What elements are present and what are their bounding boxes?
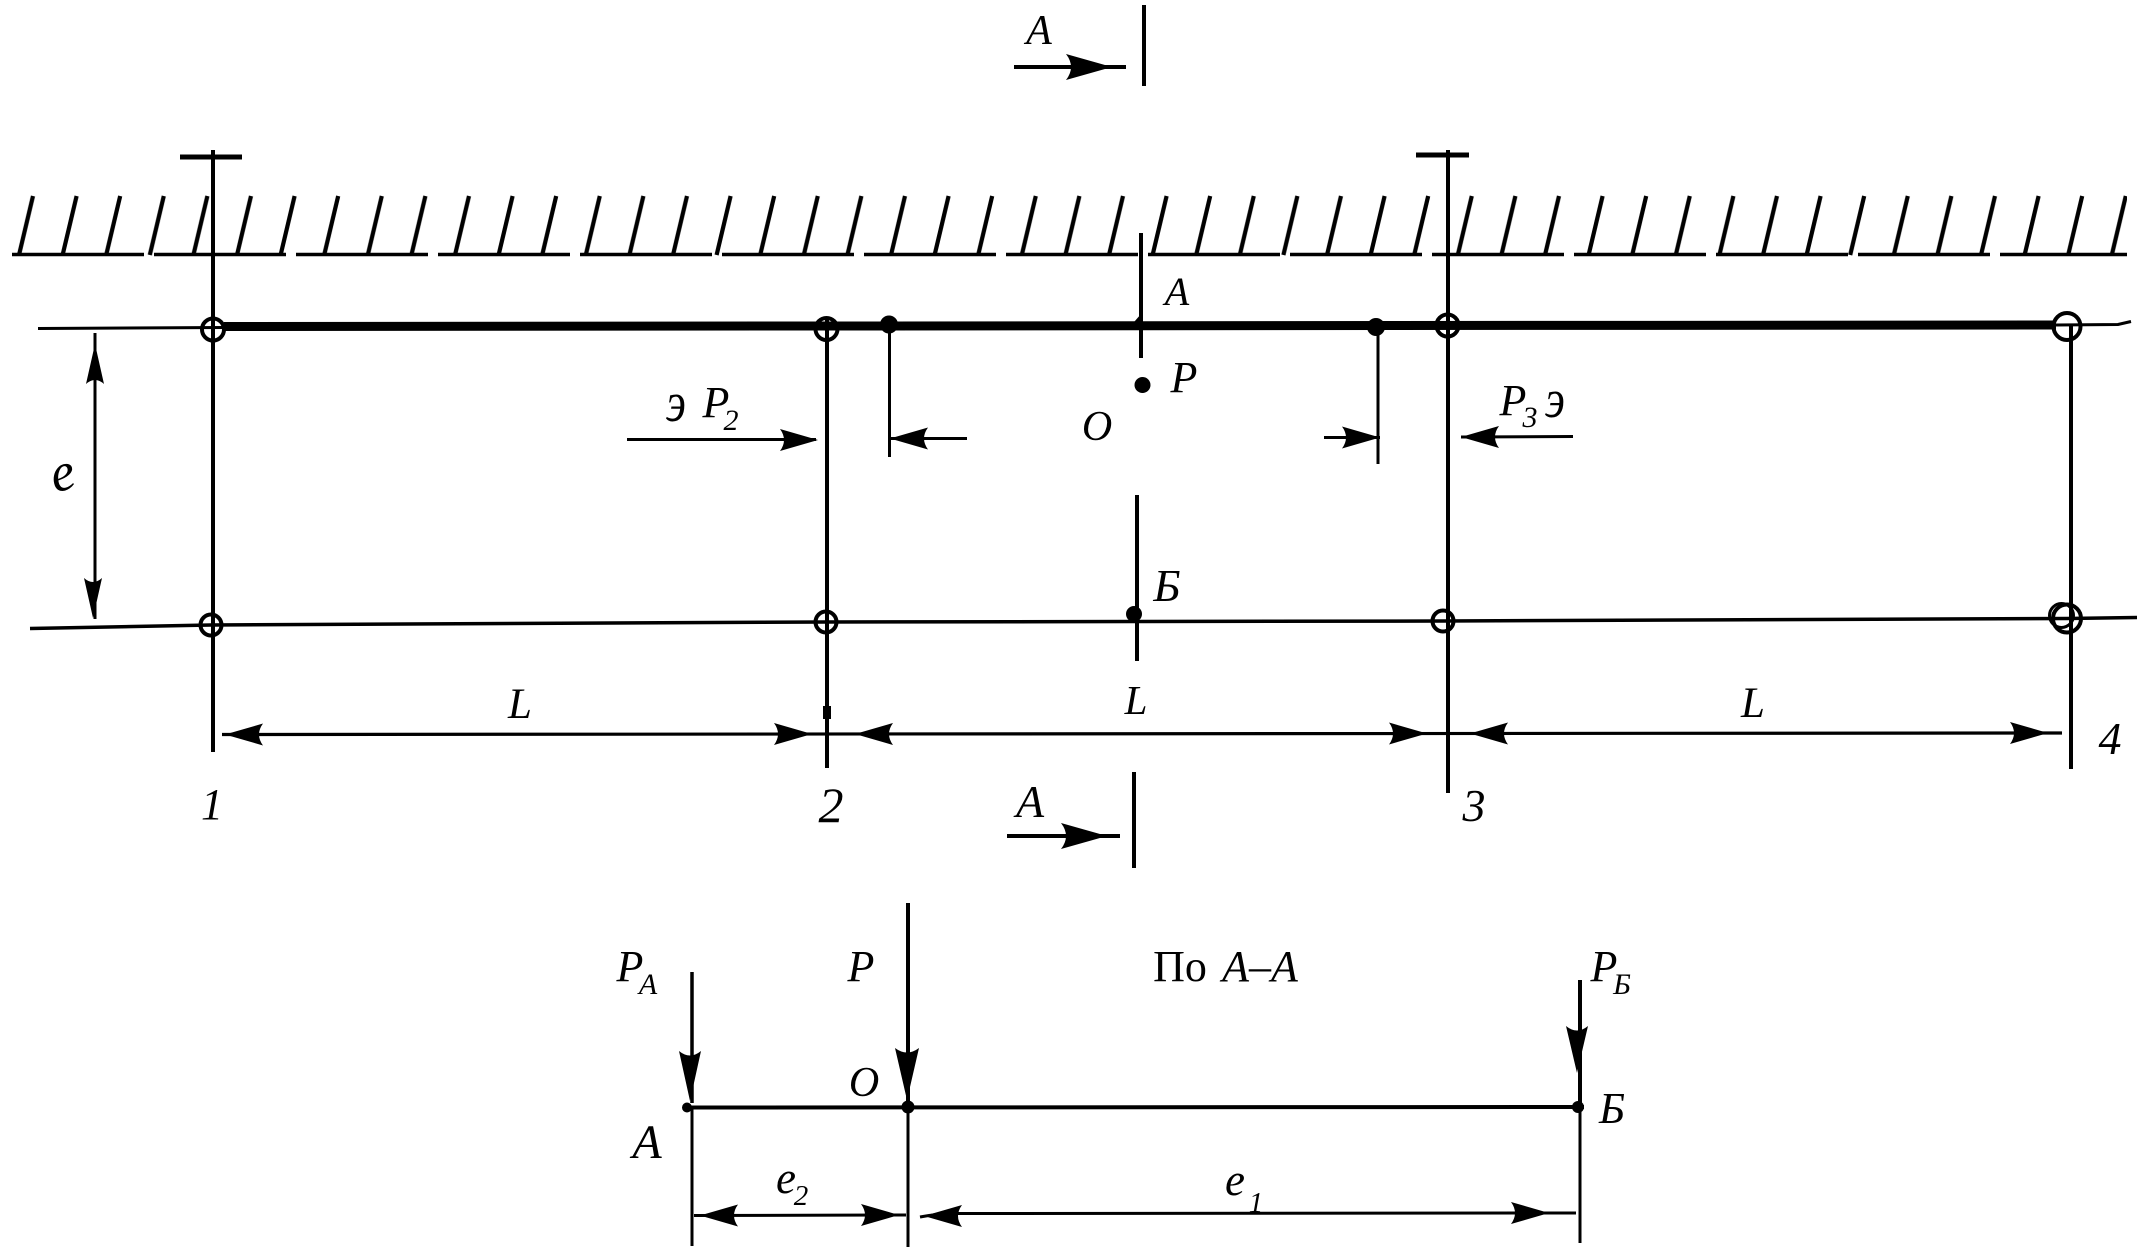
L span3 left arrowhead	[1470, 723, 1508, 745]
extension line at O	[907, 1107, 910, 1247]
beam point O dot	[902, 1101, 915, 1114]
support 3 column line	[1446, 150, 1450, 793]
dimension line L (spans 1-4)	[222, 733, 2062, 735]
L span2 left arrowhead	[855, 723, 893, 745]
svg-text:L: L	[1740, 680, 1765, 727]
dimension e2: line	[694, 1214, 906, 1218]
L span1 right arrowhead	[774, 723, 812, 745]
label PA	[616, 942, 658, 1001]
svg-text:3: 3	[1522, 401, 1538, 434]
dimension e1: line	[920, 1213, 1576, 1217]
dimension e2: left arrowhead	[700, 1205, 738, 1227]
section axis A lower segment	[1135, 495, 1139, 661]
node B dot	[1126, 606, 1142, 622]
svg-text:Б: Б	[1152, 560, 1180, 611]
hinge circle support 2 bottom	[816, 612, 837, 633]
svg-text:Р: Р	[847, 942, 875, 991]
svg-text:э: э	[666, 372, 686, 434]
force PB line	[1578, 980, 1582, 1103]
beam end dot A	[682, 1103, 692, 1113]
svg-text:3: 3	[1462, 780, 1486, 831]
dimension e (left): line	[94, 333, 97, 619]
L span3 right arrowhead	[2010, 722, 2048, 744]
svg-text:2: 2	[819, 777, 844, 833]
dimension P3 э: label	[1499, 369, 1565, 434]
extension line at A	[691, 1107, 694, 1246]
beam end dot B	[1572, 1101, 1584, 1113]
svg-text:А: А	[637, 968, 658, 1001]
dimension e1: label	[1225, 1155, 1263, 1219]
section mark A (top): cut line	[1142, 5, 1146, 86]
hinge circle support 4 top	[2054, 313, 2081, 340]
dimension э P2: left arrow	[627, 429, 818, 451]
dimension e2: label	[776, 1153, 808, 1212]
wheel load point P2: axis line	[888, 330, 891, 457]
force PA arrowhead	[679, 1051, 701, 1101]
point P dot	[1135, 377, 1151, 393]
support 2 column tick	[823, 706, 831, 719]
svg-text:Б: Б	[1598, 1084, 1625, 1133]
svg-text:О: О	[849, 1060, 879, 1106]
section mark A (top): label	[1023, 8, 1052, 54]
top rail thick segment	[224, 325, 2056, 327]
beam A-B	[686, 1105, 1584, 1110]
wall hatching	[12, 194, 2127, 256]
support 2 column line	[825, 318, 829, 768]
svg-text:А–А: А–А	[1219, 942, 1299, 991]
svg-text:Р: Р	[1170, 353, 1198, 402]
dimension e1: left arrowhead	[924, 1205, 962, 1227]
hinge circle support 4 bottom (doubled)	[2050, 604, 2082, 633]
svg-text:О: О	[1082, 404, 1112, 450]
dimension P3 э: right arrow	[1461, 426, 1573, 448]
svg-text:1: 1	[1249, 1187, 1264, 1219]
hinge circle support 1 bottom	[201, 615, 222, 636]
svg-text:А: А	[1023, 8, 1052, 54]
top rail left thin segment	[38, 328, 224, 329]
svg-text:А: А	[1013, 776, 1045, 827]
support 4 column line	[2069, 326, 2073, 769]
force P arrowhead	[895, 1048, 919, 1100]
L span1 left arrowhead	[225, 724, 263, 746]
support 1 hanger T	[180, 155, 242, 160]
label PB	[1590, 942, 1632, 1001]
hinge circle support 3 top	[1437, 315, 1459, 337]
svg-text:2: 2	[724, 404, 739, 437]
label Po A-A	[1153, 942, 1299, 991]
wheel load point P3: axis line	[1377, 334, 1380, 464]
hinge circle support 3 bottom	[1433, 611, 1454, 632]
wheel load point P2: dot on rail	[880, 316, 898, 334]
svg-text:По: По	[1153, 942, 1207, 991]
section mark A (top): arrow	[1014, 54, 1126, 80]
section axis A upper segment	[1128, 233, 1141, 358]
svg-text:4: 4	[2099, 713, 2122, 764]
svg-text:А: А	[629, 1116, 662, 1169]
L span2 right arrowhead	[1389, 723, 1427, 745]
dimension e: down arrowhead	[84, 578, 102, 618]
svg-text:А: А	[1162, 269, 1190, 314]
bottom rail	[30, 618, 2137, 629]
hinge circle support 2 top	[816, 318, 838, 340]
support 1 column line	[211, 150, 215, 752]
wheel load point P3: dot on rail	[1367, 318, 1385, 336]
svg-text:e: e	[1225, 1155, 1245, 1205]
dimension e1: right arrowhead	[1511, 1202, 1549, 1224]
svg-text:L: L	[507, 681, 532, 728]
svg-text:L: L	[1124, 677, 1148, 723]
force PB arrowhead	[1566, 1026, 1588, 1073]
extension line at B	[1579, 1107, 1582, 1243]
dimension P3 э: left arrow	[1324, 427, 1380, 449]
svg-text:2: 2	[794, 1180, 809, 1212]
section mark A (bottom): arrow	[1007, 823, 1120, 849]
top rail right thin segment	[2056, 322, 2131, 326]
dimension э P2: label	[666, 372, 739, 437]
dimension e2: right arrowhead	[861, 1204, 899, 1226]
dimension э P2: right arrow	[890, 428, 967, 450]
hinge circle support 1 top	[202, 319, 224, 341]
support 3 hanger T	[1416, 153, 1469, 158]
section mark A (bottom): cut line	[1132, 772, 1136, 868]
svg-text:1: 1	[201, 780, 223, 829]
force P line	[906, 903, 910, 1101]
force PA line	[690, 972, 694, 1103]
wall base line	[12, 253, 2127, 257]
svg-text:э: э	[1545, 369, 1565, 429]
dimension e: up arrowhead	[86, 344, 104, 384]
svg-text:Б: Б	[1612, 968, 1631, 1001]
